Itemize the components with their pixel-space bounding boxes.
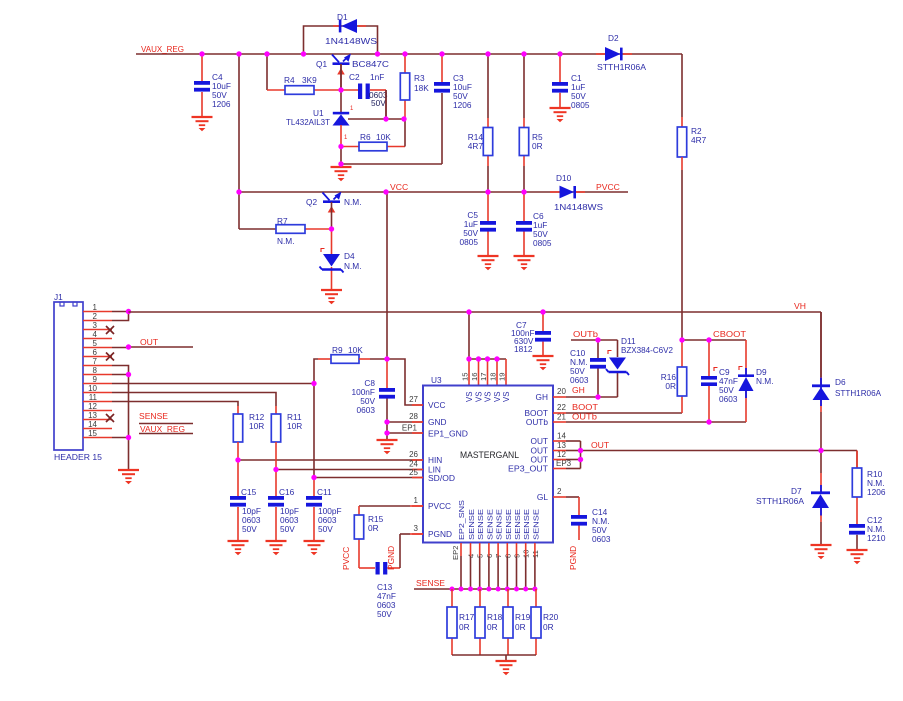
pin numbers 15-19 VS xyxy=(461,373,507,381)
capacitor C13 xyxy=(376,562,388,575)
IC U3 MASTERGANL xyxy=(423,386,553,543)
pin mark D4 xyxy=(321,249,325,253)
svg-text:7: 7 xyxy=(93,357,98,366)
junction VCC VCC left xyxy=(236,189,241,194)
resistor R14 xyxy=(483,128,492,156)
svg-text:18: 18 xyxy=(489,373,498,381)
svg-text:21: 21 xyxy=(557,413,566,422)
svg-text:50V: 50V xyxy=(377,609,392,619)
wire C6 branch xyxy=(523,192,525,256)
svg-text:0603: 0603 xyxy=(357,405,376,415)
wire IC bottom pin stubs xyxy=(461,543,535,589)
junction HIN xyxy=(235,457,240,462)
svg-text:SENSE: SENSE xyxy=(416,578,445,588)
resistor R19 xyxy=(503,607,513,638)
resistor R9 xyxy=(331,355,359,364)
wire VCC pin27 route xyxy=(387,359,423,405)
svg-text:PGND: PGND xyxy=(428,529,452,539)
junction rail R4 xyxy=(264,51,269,56)
svg-text:OUT: OUT xyxy=(530,436,548,446)
svg-text:27: 27 xyxy=(409,395,418,404)
svg-text:PVCC: PVCC xyxy=(428,501,451,511)
pin mark C9 xyxy=(714,368,718,372)
wire R9 left vertical to SD/OD and C11 xyxy=(314,359,423,541)
no-connect X pin13 xyxy=(106,414,114,422)
svg-text:PVCC: PVCC xyxy=(596,182,620,192)
svg-text:SENSE: SENSE xyxy=(495,509,504,540)
svg-text:1210: 1210 xyxy=(867,533,886,543)
wire SENSE label stub xyxy=(139,423,193,425)
capacitor C16 xyxy=(268,496,284,507)
svg-text:PGND: PGND xyxy=(568,546,578,570)
svg-text:N.M.: N.M. xyxy=(277,236,295,246)
svg-text:10K: 10K xyxy=(376,132,391,142)
resistor R2 xyxy=(677,127,686,157)
wire C7 branch xyxy=(542,312,544,356)
transistor Q1 xyxy=(332,54,351,75)
svg-text:N.M.: N.M. xyxy=(756,376,774,386)
svg-text:12: 12 xyxy=(557,450,566,459)
diode D9 xyxy=(738,368,754,398)
svg-text:VCC: VCC xyxy=(428,400,446,410)
svg-text:28: 28 xyxy=(409,412,418,421)
wire R10 C12 branch xyxy=(856,451,858,551)
svg-text:N.M.: N.M. xyxy=(344,197,362,207)
junction C7 xyxy=(540,309,545,314)
svg-text:0805: 0805 xyxy=(460,237,479,247)
wire D4 leads xyxy=(331,229,333,290)
wire VAUX_REG rail xyxy=(136,54,682,127)
svg-text:VS: VS xyxy=(484,392,493,402)
resistor R15 xyxy=(354,515,363,539)
wire D9 branch xyxy=(745,340,747,422)
ground C16 xyxy=(266,541,287,555)
wire OUT line xyxy=(581,451,858,469)
junction GND pin xyxy=(384,419,389,424)
svg-text:R19: R19 xyxy=(515,612,531,622)
svg-text:BC847C: BC847C xyxy=(352,59,389,69)
svg-text:4R7: 4R7 xyxy=(468,141,484,151)
svg-text:1N4148WS: 1N4148WS xyxy=(325,36,378,46)
wire GH line xyxy=(553,368,618,397)
IC bottom pin numbers xyxy=(451,546,540,560)
svg-text:SENSE: SENSE xyxy=(522,509,531,540)
svg-text:SD/OD: SD/OD xyxy=(428,474,455,483)
wire R11 to LIN and C16 xyxy=(276,442,423,541)
wire D1 loop xyxy=(304,26,378,54)
ground C7 xyxy=(533,356,554,370)
svg-text:10K: 10K xyxy=(348,345,363,355)
junction OUT a xyxy=(578,448,583,453)
resistor R17 xyxy=(447,607,457,638)
no-connect X pin3 xyxy=(106,326,114,334)
diode D4 zener xyxy=(320,254,344,273)
junction CBOOT R2 xyxy=(679,337,684,342)
svg-text:LIN: LIN xyxy=(428,465,441,475)
pin mark D11 xyxy=(608,351,612,355)
junction rail R5 xyxy=(521,51,526,56)
capacitor C1 xyxy=(552,82,568,93)
wire R7 leads xyxy=(239,192,332,229)
svg-text:HIN: HIN xyxy=(428,455,442,465)
IC pin names right xyxy=(508,392,548,502)
capacitor C9 xyxy=(0,0,1,1)
svg-text:0R: 0R xyxy=(665,381,676,391)
junction dots SENSE line xyxy=(450,587,538,592)
capacitor C12 xyxy=(849,524,865,535)
header pin stubs xyxy=(83,312,112,438)
svg-text:0603: 0603 xyxy=(592,534,611,544)
connector J1 HEADER 15 xyxy=(54,302,83,450)
svg-text:3: 3 xyxy=(93,321,98,330)
junction pin5 OUT xyxy=(126,344,131,349)
svg-text:1812: 1812 xyxy=(514,344,533,354)
wire IC left pin red stubs xyxy=(412,405,423,534)
svg-text:D7: D7 xyxy=(791,486,802,496)
wire C2 leads xyxy=(341,90,386,119)
capacitor C15 xyxy=(230,496,246,507)
svg-text:D10: D10 xyxy=(556,173,572,183)
ground C5 xyxy=(478,256,499,270)
capacitor C10 xyxy=(590,358,606,369)
wire C9 branch xyxy=(708,340,710,422)
svg-text:26: 26 xyxy=(409,450,418,459)
IC left pin numbers xyxy=(402,395,419,533)
resistor R12 xyxy=(233,414,242,442)
wire R4 branch xyxy=(267,54,341,90)
resistor R20 xyxy=(531,607,541,638)
IC pin names bottom SENSE xyxy=(457,500,540,540)
diode D11 zener xyxy=(606,358,629,376)
wire Q2 base stub xyxy=(331,202,333,229)
wire header pin9 line xyxy=(112,383,314,385)
svg-text:EP2: EP2 xyxy=(451,546,460,560)
wire U1 ref line xyxy=(348,90,405,119)
junction rail C4 xyxy=(199,51,204,56)
svg-text:19: 19 xyxy=(498,373,507,381)
svg-text:J1: J1 xyxy=(54,292,63,302)
svg-text:SENSE: SENSE xyxy=(139,411,168,421)
capacitor C5 xyxy=(480,221,496,232)
junction VS4 xyxy=(494,356,499,361)
wire R6 leads xyxy=(341,119,405,147)
wire R14 branch xyxy=(487,54,489,192)
resistor R16 xyxy=(677,367,686,396)
svg-text:4R7: 4R7 xyxy=(691,135,707,145)
wire SENSE line xyxy=(414,588,537,590)
svg-text:0603: 0603 xyxy=(719,394,738,404)
svg-text:D6: D6 xyxy=(835,377,846,387)
svg-text:1: 1 xyxy=(93,303,98,312)
svg-text:HEADER 15: HEADER 15 xyxy=(54,452,102,462)
capacitor C2 xyxy=(358,84,370,100)
ground R17-R20 xyxy=(496,661,517,675)
ground header xyxy=(118,470,139,484)
junction rail D1 left xyxy=(301,51,306,56)
svg-text:8: 8 xyxy=(93,366,98,375)
svg-text:SENSE: SENSE xyxy=(476,509,485,540)
capacitor C8 xyxy=(379,388,395,399)
junction C9 bottom xyxy=(706,419,711,424)
svg-text:3K9: 3K9 xyxy=(302,75,317,85)
no-connect X pin6 xyxy=(106,353,114,361)
svg-text:VS: VS xyxy=(493,392,502,402)
svg-text:D4: D4 xyxy=(344,251,355,261)
junction VCC VCC mid xyxy=(383,189,388,194)
resistor R7 xyxy=(276,225,305,234)
wire OUTb label line xyxy=(571,340,618,358)
junction LIN xyxy=(273,467,278,472)
wire U1 cathode xyxy=(340,64,342,112)
wire header pin5 OUT stub xyxy=(112,346,193,349)
svg-text:R7: R7 xyxy=(277,216,288,226)
svg-text:13: 13 xyxy=(557,441,566,450)
svg-text:R17: R17 xyxy=(459,612,475,622)
svg-text:C16: C16 xyxy=(279,487,295,497)
wire header pin11 line to R12 xyxy=(112,402,238,415)
junction pin9 R9 xyxy=(311,381,316,386)
resistor R11 xyxy=(271,414,280,442)
svg-text:VCC: VCC xyxy=(390,182,408,192)
svg-text:EP3: EP3 xyxy=(556,459,572,468)
resistor R6 xyxy=(359,142,387,151)
resistor R3 xyxy=(400,73,409,100)
svg-text:OUT: OUT xyxy=(591,440,610,450)
svg-text:1206: 1206 xyxy=(212,99,231,109)
svg-text:R20: R20 xyxy=(543,612,559,622)
svg-text:14: 14 xyxy=(557,432,566,441)
svg-text:GND: GND xyxy=(428,417,446,427)
svg-text:22: 22 xyxy=(557,403,566,412)
svg-text:0R: 0R xyxy=(368,523,379,533)
junction VS1 xyxy=(466,356,471,361)
svg-text:50V: 50V xyxy=(242,524,257,534)
ground C6 xyxy=(514,256,535,270)
svg-text:0805: 0805 xyxy=(533,238,552,248)
wire OUTb line xyxy=(553,421,746,423)
svg-text:PVCC: PVCC xyxy=(341,547,351,570)
svg-text:TL432AIL3T: TL432AIL3T xyxy=(286,117,330,127)
svg-text:50V: 50V xyxy=(280,524,295,534)
junction EP1 pin xyxy=(384,430,389,435)
junction pin8 xyxy=(126,372,131,377)
ground C11 xyxy=(304,541,325,555)
svg-text:0R: 0R xyxy=(543,622,554,632)
ground C1 xyxy=(550,108,571,122)
svg-text:1: 1 xyxy=(414,496,419,505)
svg-text:C15: C15 xyxy=(241,487,257,497)
svg-text:15: 15 xyxy=(461,373,470,381)
svg-text:6: 6 xyxy=(93,348,98,357)
svg-text:10R: 10R xyxy=(249,421,264,431)
svg-text:25: 25 xyxy=(409,468,418,477)
wire R18 leads xyxy=(479,589,481,655)
junction C10 bottom xyxy=(595,394,600,399)
svg-text:SENSE: SENSE xyxy=(504,509,513,540)
resistor R10 xyxy=(852,468,861,497)
resistor R5 xyxy=(519,128,528,156)
svg-text:R18: R18 xyxy=(487,612,503,622)
svg-text:EP1: EP1 xyxy=(402,424,418,433)
ground C12 xyxy=(847,550,868,564)
svg-text:15: 15 xyxy=(88,429,97,438)
ground C15 xyxy=(228,541,249,555)
svg-text:U3: U3 xyxy=(431,375,442,385)
IC pin names VS top xyxy=(465,392,511,402)
svg-text:D2: D2 xyxy=(608,33,619,43)
header pin numbers xyxy=(88,303,97,438)
wire left vertical x239 xyxy=(238,54,240,192)
diode D1 xyxy=(333,19,366,33)
svg-text:VAUX_REG: VAUX_REG xyxy=(140,424,185,434)
svg-text:OUTb: OUTb xyxy=(526,417,549,427)
svg-text:12: 12 xyxy=(88,402,97,411)
junction VCC C5 xyxy=(485,189,490,194)
wire PVCC pin1 route xyxy=(359,506,423,568)
svg-text:1nF: 1nF xyxy=(370,72,384,82)
svg-text:PGND: PGND xyxy=(386,546,396,570)
wire C3 branch xyxy=(441,54,443,164)
svg-text:1206: 1206 xyxy=(453,100,472,110)
wire R3 leads xyxy=(404,54,406,119)
svg-text:10R: 10R xyxy=(287,421,302,431)
svg-text:BOOT: BOOT xyxy=(572,402,599,412)
svg-text:GH: GH xyxy=(572,385,585,395)
wire vertical x387 VCC to C8 ground xyxy=(387,192,423,440)
wire D7 branch xyxy=(820,451,822,546)
svg-text:R6: R6 xyxy=(360,132,371,142)
svg-text:11: 11 xyxy=(89,393,98,402)
op-amp U1 TL432 shunt reference xyxy=(333,112,350,146)
wire C4 branch xyxy=(201,54,203,117)
wire GL line xyxy=(553,497,579,540)
wire header pins 7 8 15 to ground xyxy=(112,366,129,471)
junction Q1 base R4 C2 xyxy=(338,87,343,92)
svg-text:20: 20 xyxy=(557,387,566,396)
svg-text:13: 13 xyxy=(88,411,97,420)
svg-text:0603: 0603 xyxy=(570,375,589,385)
svg-text:17: 17 xyxy=(479,373,488,381)
wire R20 leads xyxy=(535,589,537,655)
svg-text:EP3_OUT: EP3_OUT xyxy=(508,464,548,474)
svg-text:STTH1R06A: STTH1R06A xyxy=(756,496,804,506)
ground D7 xyxy=(811,545,832,559)
wire U1 anode to ground xyxy=(341,146,442,167)
svg-text:SENSE: SENSE xyxy=(485,509,494,540)
wire PGND pin3 route xyxy=(387,534,423,568)
svg-text:10: 10 xyxy=(88,384,97,393)
diode D7 xyxy=(811,485,830,516)
wire VH line xyxy=(129,312,822,385)
junction rail C3 xyxy=(439,51,444,56)
junction rail D1 right xyxy=(375,51,380,56)
capacitor C7 xyxy=(535,331,551,342)
svg-text:Q1: Q1 xyxy=(316,59,327,69)
capacitor C3 xyxy=(434,82,450,93)
wire R2 to CBOOT xyxy=(681,157,683,340)
svg-text:N.M.: N.M. xyxy=(344,261,362,271)
svg-text:EP1_GND: EP1_GND xyxy=(428,430,468,439)
svg-text:R9: R9 xyxy=(332,345,343,355)
svg-text:STTH1R06A: STTH1R06A xyxy=(835,388,881,398)
svg-text:C2: C2 xyxy=(349,72,360,82)
junction C2 ref xyxy=(383,116,388,121)
wire VAUX_REG label stub xyxy=(139,433,193,435)
junction R3 ref xyxy=(401,116,406,121)
svg-text:50V: 50V xyxy=(371,98,386,108)
wire R5 branch xyxy=(523,54,525,192)
junction U1 anode xyxy=(338,161,343,166)
svg-text:VS: VS xyxy=(465,392,474,402)
junction VS2 xyxy=(476,356,481,361)
transistor Q2 xyxy=(323,192,342,213)
svg-text:18K: 18K xyxy=(414,83,429,93)
wire BOOT line xyxy=(553,340,682,413)
diode D6 xyxy=(812,378,830,407)
svg-text:5: 5 xyxy=(93,339,98,348)
svg-text:0R: 0R xyxy=(487,622,498,632)
svg-text:0805: 0805 xyxy=(571,100,590,110)
junction rail C1 xyxy=(557,51,562,56)
svg-text:4: 4 xyxy=(93,330,98,339)
svg-text:CBOOT: CBOOT xyxy=(713,329,747,339)
svg-text:0R: 0R xyxy=(532,141,543,151)
diode D10 xyxy=(550,186,585,199)
svg-text:BZX384-C6V2: BZX384-C6V2 xyxy=(621,345,673,355)
resistor R4 xyxy=(285,86,314,95)
svg-text:0R: 0R xyxy=(459,622,470,632)
junction rail R3 xyxy=(402,51,407,56)
svg-text:2: 2 xyxy=(93,312,98,321)
svg-text:OUTb: OUTb xyxy=(573,329,598,339)
wire CBOOT line xyxy=(682,339,746,341)
diode D2 xyxy=(596,47,632,61)
ground C4 xyxy=(192,117,213,131)
svg-text:GH: GH xyxy=(536,392,548,402)
svg-text:SENSE: SENSE xyxy=(467,509,476,540)
wire R12 to HIN and C15 xyxy=(238,442,423,541)
wire VS bus xyxy=(469,312,506,385)
wire header pin10 line to R11 xyxy=(112,393,276,415)
capacitor C14 xyxy=(571,515,587,526)
capacitor C11 xyxy=(306,496,322,507)
svg-text:VS: VS xyxy=(475,392,484,402)
svg-text:50V: 50V xyxy=(318,524,333,534)
svg-text:R3: R3 xyxy=(414,73,425,83)
capacitor C4 xyxy=(194,81,210,92)
ground D4 xyxy=(321,290,342,304)
svg-text:OUTb: OUTb xyxy=(572,412,597,422)
svg-text:1206: 1206 xyxy=(867,487,886,497)
svg-text:STTH1R06A: STTH1R06A xyxy=(597,62,646,72)
resistor R18 xyxy=(475,607,485,638)
svg-text:14: 14 xyxy=(88,420,97,429)
svg-text:VS: VS xyxy=(502,392,511,402)
wire OUT pins bracket xyxy=(553,441,581,469)
svg-text:0R: 0R xyxy=(515,622,526,632)
svg-text:1N4148WS: 1N4148WS xyxy=(554,202,604,212)
wire C1 branch xyxy=(559,54,561,108)
wire R17-R20 bottom bus xyxy=(452,655,536,661)
svg-text:9: 9 xyxy=(93,375,98,384)
junction R6 left xyxy=(338,144,343,149)
IC right pin numbers xyxy=(556,387,572,496)
wire VCC line xyxy=(239,191,628,193)
wire Q1 base stub xyxy=(340,64,342,90)
junction VCC C8 R9 xyxy=(384,356,389,361)
junction OUT b xyxy=(578,457,583,462)
IC pin names left xyxy=(428,400,468,539)
